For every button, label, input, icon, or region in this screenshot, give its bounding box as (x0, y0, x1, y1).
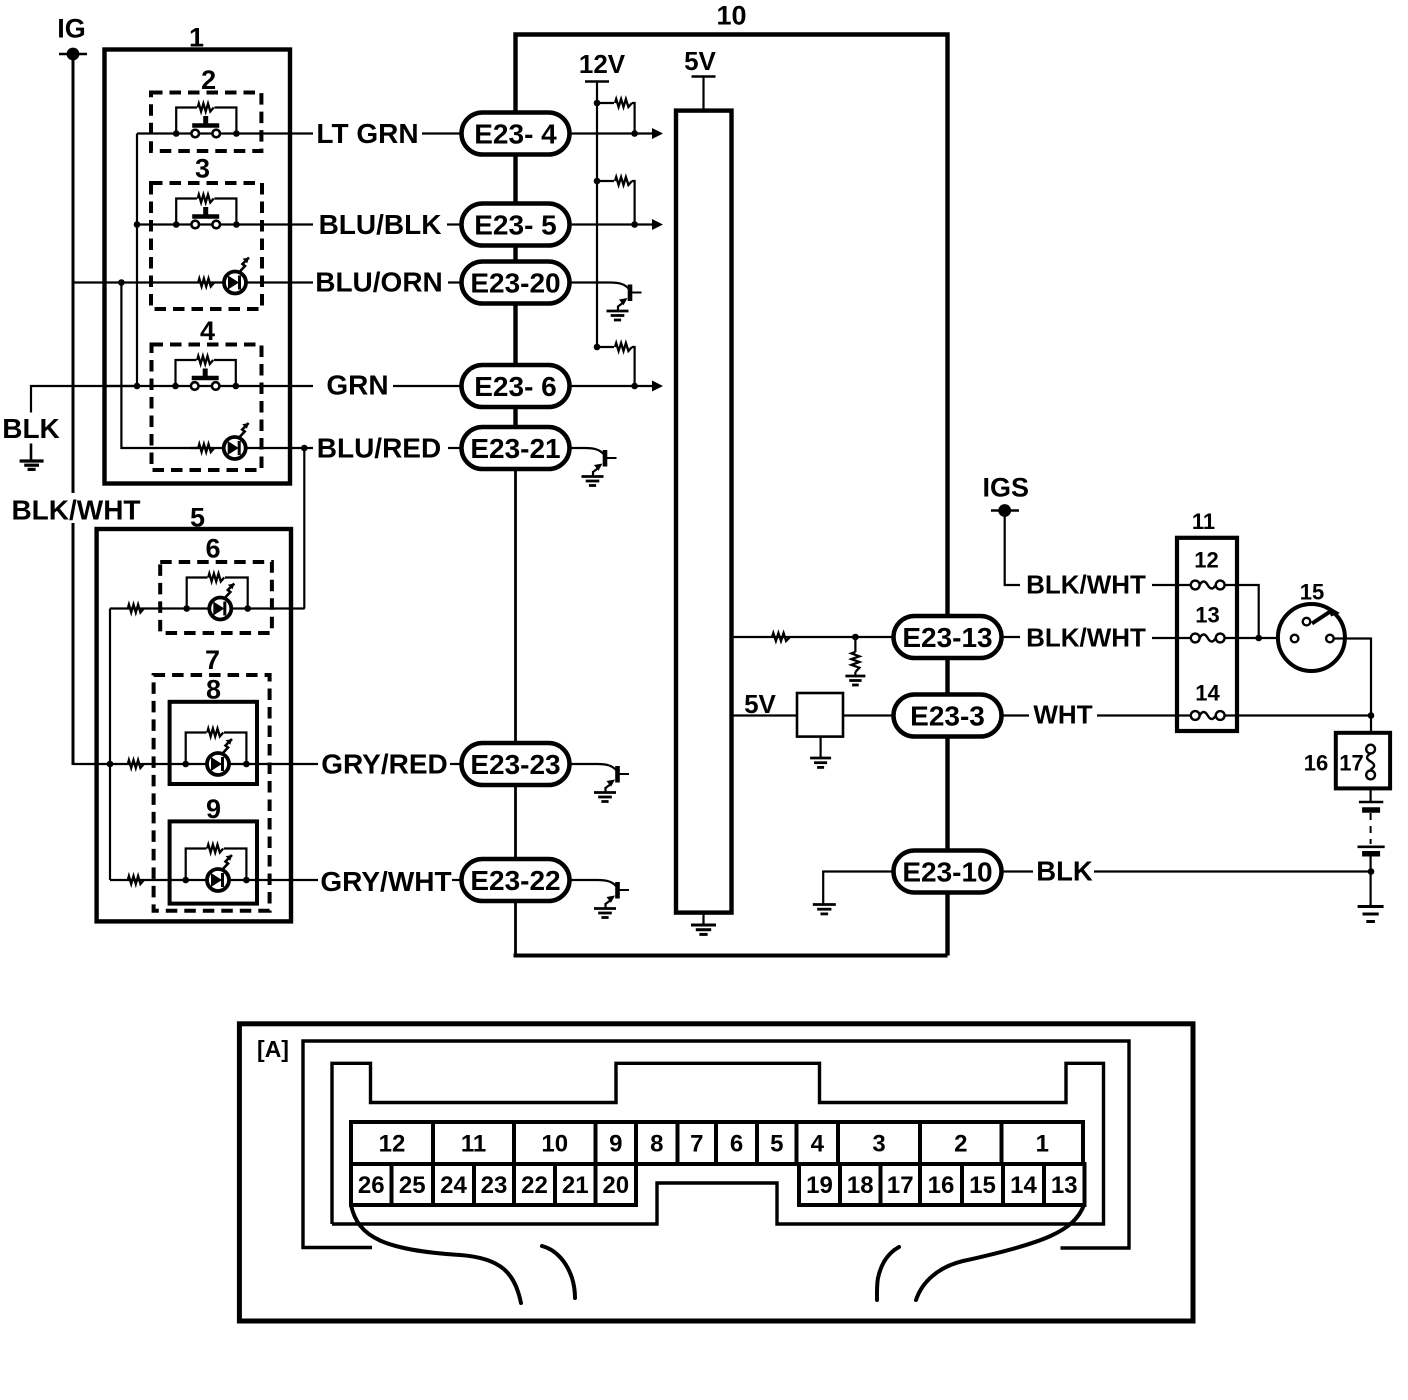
wire BLU/RED to pill (448, 447, 462, 449)
svg-text:GRN: GRN (326, 370, 388, 401)
component fuse box 11 (1177, 538, 1237, 731)
resistor E23-13 series (772, 633, 790, 641)
wire BLK/WHT to fuse 13 (1152, 637, 1191, 639)
svg-text:25: 25 (399, 1172, 426, 1199)
svg-text:2: 2 (954, 1131, 967, 1158)
wire BLU/BLK to pill (447, 223, 462, 225)
svg-text:14: 14 (1010, 1172, 1037, 1199)
junction dot BLU/RED x305 (301, 445, 308, 452)
wire E23-4 row to CPU (570, 132, 652, 134)
fusible link 17 (1366, 745, 1375, 754)
connector housing outline (303, 1041, 1129, 1248)
wire BLU/RED branch vertical x121 (121, 283, 198, 449)
svg-text:22: 22 (521, 1172, 548, 1199)
resistor bypass switch 4 (176, 360, 197, 386)
wire regulator to pill E23-3 (843, 714, 892, 716)
svg-text:23: 23 (481, 1172, 508, 1199)
junction dot E23-13 pulldown (852, 634, 859, 641)
wire IGS to BLK/WHT (1005, 511, 1020, 586)
connector view outer box (239, 1024, 1193, 1321)
ground battery (1358, 905, 1384, 908)
svg-text:E23-13: E23-13 (902, 622, 992, 653)
wire E23-3 to label (1002, 714, 1029, 716)
wire E23-6 row to CPU (570, 385, 652, 387)
wire GRY/WHT to pill (452, 879, 462, 881)
svg-text:4: 4 (811, 1131, 825, 1158)
wire GRY/WHT row (110, 879, 318, 881)
component CPU block (676, 111, 732, 913)
svg-text:WHT: WHT (1033, 700, 1092, 730)
harness curve left (351, 1205, 521, 1303)
connector pin E23-10 (894, 851, 1002, 893)
resistor pullup E23-6 (597, 346, 614, 348)
wire WHT to fuse 14 (1097, 714, 1191, 716)
harness curve mid-right (877, 1247, 899, 1300)
resistor parallel loop 6 (187, 578, 208, 609)
component ignition switch 15 (1278, 604, 1345, 671)
connector body profile (332, 1063, 1104, 1224)
wire E23-10 internal (823, 872, 892, 905)
svg-text:E23-10: E23-10 (902, 857, 992, 888)
svg-text:11: 11 (461, 1131, 486, 1158)
ground regulator (810, 757, 831, 760)
resistor LED3 series (198, 279, 214, 287)
svg-text:12V: 12V (579, 49, 626, 79)
junction dot at GRN row x137 (134, 383, 141, 390)
svg-text:BLK/WHT: BLK/WHT (1026, 570, 1146, 600)
wire box16 to battery (1369, 788, 1371, 802)
svg-text:GRY/RED: GRY/RED (321, 749, 448, 780)
resistor E23-13 pulldown (854, 637, 856, 652)
resistor GRY/RED series (128, 760, 144, 768)
wire WHT from fuse 14 (1225, 714, 1371, 716)
component box 1 switch assembly (105, 50, 291, 484)
LED indicator 8 (207, 753, 229, 775)
switch 3 pushbutton (191, 221, 199, 229)
battery cell 1 (1359, 801, 1383, 804)
svg-text:18: 18 (847, 1172, 874, 1199)
resistor pullup E23-4 (597, 102, 614, 104)
connector pin E23-20 (462, 262, 570, 304)
svg-text:11: 11 (1192, 509, 1215, 534)
svg-text:15: 15 (969, 1172, 996, 1199)
LED indicator 9 (207, 869, 229, 891)
svg-text:17: 17 (1339, 751, 1363, 776)
wire BLU/RED row (190, 447, 313, 449)
svg-text:14: 14 (1195, 681, 1220, 706)
component box 2 dashed (151, 93, 261, 152)
wire BLU/ORN row (73, 281, 313, 283)
svg-text:BLK: BLK (1036, 856, 1093, 887)
component box 4 dashed (152, 345, 262, 471)
junction dot at BLU/BLK row x137 (134, 221, 141, 228)
svg-text:21: 21 (562, 1172, 589, 1199)
svg-text:7: 7 (205, 645, 220, 675)
svg-text:E23-20: E23-20 (470, 268, 560, 299)
fuse 14 (1191, 711, 1200, 720)
power 5V tick (692, 75, 716, 77)
svg-text:E23-3: E23-3 (910, 701, 985, 732)
transistor driver E23-22 (570, 880, 616, 886)
wire GRY/RED row (73, 763, 318, 765)
svg-text:IGS: IGS (983, 473, 1030, 503)
junction dot fuse rows (1255, 635, 1262, 642)
svg-text:12: 12 (1194, 548, 1218, 573)
wire GRN row left segment to ground elbow (31, 386, 137, 413)
wire LED6 feed vertical x110 (109, 609, 111, 881)
component box 6 dashed (160, 562, 272, 633)
component box 3 dashed (151, 183, 262, 309)
wire E23-10 to label (1002, 870, 1033, 872)
wire BLU/ORN to pill (448, 281, 462, 283)
svg-text:5V: 5V (684, 46, 716, 76)
wire CPU to regulator (732, 714, 798, 716)
wire BLU/BLK row (137, 223, 313, 225)
LED indicator in box 4 (224, 437, 246, 459)
wire IG vertical BLK/WHT feed upper (72, 54, 75, 493)
fuse 13 (1191, 634, 1200, 643)
component box 5 (97, 529, 291, 921)
wire GRN to pill (393, 385, 462, 387)
svg-text:12: 12 (379, 1131, 406, 1158)
harness curve mid-left (542, 1246, 575, 1298)
svg-text:IG: IG (57, 14, 86, 44)
svg-text:19: 19 (806, 1172, 833, 1199)
resistor pullup E23-5 (597, 180, 614, 182)
LED indicator in box 3 (224, 272, 246, 294)
wire fuse 13 to switch 15 (1225, 637, 1291, 639)
svg-text:10: 10 (541, 1131, 568, 1158)
wire GRY/RED to pill (450, 763, 462, 765)
wire regulator ground stem (819, 737, 821, 758)
wire switch common vertical x137 (136, 134, 138, 387)
svg-text:GRY/WHT: GRY/WHT (320, 866, 451, 897)
connector pin row lower right (799, 1164, 840, 1205)
wire fuse 12 to junction (1225, 585, 1259, 638)
switch 2 pushbutton (191, 130, 199, 138)
svg-text:26: 26 (358, 1172, 385, 1199)
transistor driver E23-21 (570, 448, 604, 454)
svg-text:6: 6 (205, 534, 220, 564)
junction dots switch 2 (173, 130, 180, 137)
transistor driver E23-23 (570, 764, 616, 770)
svg-text:E23- 4: E23- 4 (474, 119, 557, 150)
component voltage regulator box (797, 693, 843, 737)
LED indicator 6 (209, 598, 231, 620)
component box 7 dashed (154, 675, 270, 911)
svg-text:24: 24 (440, 1172, 467, 1199)
svg-text:LT GRN: LT GRN (316, 118, 418, 149)
resistor LED6 series (128, 605, 144, 613)
node IG terminal (59, 53, 87, 55)
junction dots loop 6 (183, 605, 190, 612)
resistor LED4 series (198, 444, 214, 452)
svg-text:10: 10 (716, 1, 746, 31)
battery cell 2 (1358, 845, 1385, 848)
ignition switch terminals (1291, 635, 1299, 643)
svg-text:E23- 6: E23- 6 (474, 371, 557, 402)
junction dots 12V taps (594, 100, 601, 107)
junction dots loop 9 (182, 877, 189, 884)
connector pin E23-6 (462, 365, 570, 407)
svg-text:16: 16 (928, 1172, 955, 1199)
junction dots loop 8 (182, 761, 189, 768)
ground CPU (691, 924, 716, 927)
svg-text:20: 20 (602, 1172, 629, 1199)
resistor parallel loop 9 (186, 849, 207, 881)
resistor bypass switch 3 (176, 199, 197, 225)
svg-text:BLU/BLK: BLU/BLK (319, 209, 442, 240)
wire LT GRN row inside box1 (137, 132, 313, 134)
resistor bypass switch 2 (176, 108, 197, 134)
svg-text:BLK/WHT: BLK/WHT (1026, 623, 1146, 653)
svg-text:E23-21: E23-21 (470, 433, 560, 464)
connector pin E23-21 (462, 427, 570, 469)
junction dots switch 3 (173, 221, 180, 228)
switch 4 pushbutton (191, 382, 199, 390)
svg-text:BLK/WHT: BLK/WHT (11, 495, 140, 526)
connector pin E23-22 (462, 859, 570, 901)
connector pin E23-13 (894, 616, 1002, 658)
svg-text:BLK: BLK (2, 413, 60, 444)
svg-text:7: 7 (690, 1131, 703, 1158)
wire BLK/WHT vertical lower (72, 523, 75, 765)
svg-text:BLU/ORN: BLU/ORN (315, 267, 443, 298)
wire BLU/RED to LED6 vertical x305 (303, 448, 305, 609)
connector pin E23-23 (462, 743, 570, 785)
svg-text:13: 13 (1051, 1172, 1078, 1199)
connector pin E23-3 (894, 695, 1002, 737)
connector pin row upper (351, 1122, 433, 1164)
svg-text:4: 4 (200, 316, 215, 346)
svg-text:9: 9 (609, 1131, 622, 1158)
svg-text:[A]: [A] (257, 1036, 289, 1062)
wire E23-5 row to CPU (570, 223, 652, 225)
junction dot BLU/ORN x121 (118, 279, 125, 286)
svg-text:3: 3 (195, 154, 210, 184)
wire 12V rail vertical (596, 82, 598, 348)
component box 8 (170, 702, 257, 784)
wire CPU ground stem (702, 913, 704, 925)
wire BLK to battery junction (1094, 870, 1371, 872)
ground E23-13 pulldown (845, 675, 865, 678)
connector pin row lower left (351, 1164, 392, 1205)
ignition switch lever (1312, 611, 1331, 624)
svg-text:3: 3 (872, 1131, 885, 1158)
junction dot WHT row (1368, 712, 1375, 719)
component box 10 ECU (516, 35, 948, 956)
wire 5V drop (702, 77, 704, 111)
wire E23-13 row from CPU (732, 636, 893, 638)
connector pin E23-5 (462, 204, 570, 246)
resistor GRY/WHT series (128, 876, 144, 884)
wire BLK ground stem (30, 444, 33, 462)
node IGS terminal (991, 509, 1019, 511)
resistor parallel loop 8 (186, 733, 207, 765)
wire BLK/WHT to fuse 12 (1152, 584, 1191, 586)
wire E23-13 to label (1002, 636, 1020, 638)
svg-text:5: 5 (770, 1131, 783, 1158)
battery dashed link (1370, 813, 1372, 844)
connector pin E23-4 (462, 113, 570, 155)
fuse 12 (1191, 581, 1200, 590)
component box 16 (1336, 733, 1390, 789)
wire GRN row inside box1 (105, 385, 314, 387)
wire LT GRN to pill (422, 132, 462, 134)
junction dots switch 4 (172, 383, 179, 390)
svg-text:E23- 5: E23- 5 (474, 210, 557, 241)
ground E23-10 internal (813, 903, 836, 906)
power 12V tick (585, 80, 609, 82)
harness curve right (916, 1205, 1084, 1300)
svg-text:E23-22: E23-22 (470, 865, 560, 896)
svg-text:6: 6 (730, 1131, 743, 1158)
wire LED6 row (110, 607, 305, 609)
svg-text:1: 1 (1036, 1131, 1049, 1158)
svg-text:BLU/RED: BLU/RED (317, 433, 441, 464)
svg-text:8: 8 (650, 1131, 663, 1158)
transistor driver E23-20 (570, 283, 629, 289)
wire battery to ground (1369, 856, 1371, 907)
junction dot x110 GRY/RED row (107, 761, 114, 768)
junction dot BLK battery (1368, 868, 1375, 875)
svg-text:17: 17 (887, 1172, 914, 1199)
svg-text:15: 15 (1300, 580, 1324, 605)
svg-text:E23-23: E23-23 (470, 749, 560, 780)
component box 9 (170, 821, 257, 903)
svg-text:16: 16 (1304, 751, 1328, 776)
ground BLK (20, 459, 44, 462)
svg-text:13: 13 (1195, 603, 1219, 628)
wire switch 15 to battery branch (1334, 639, 1371, 733)
